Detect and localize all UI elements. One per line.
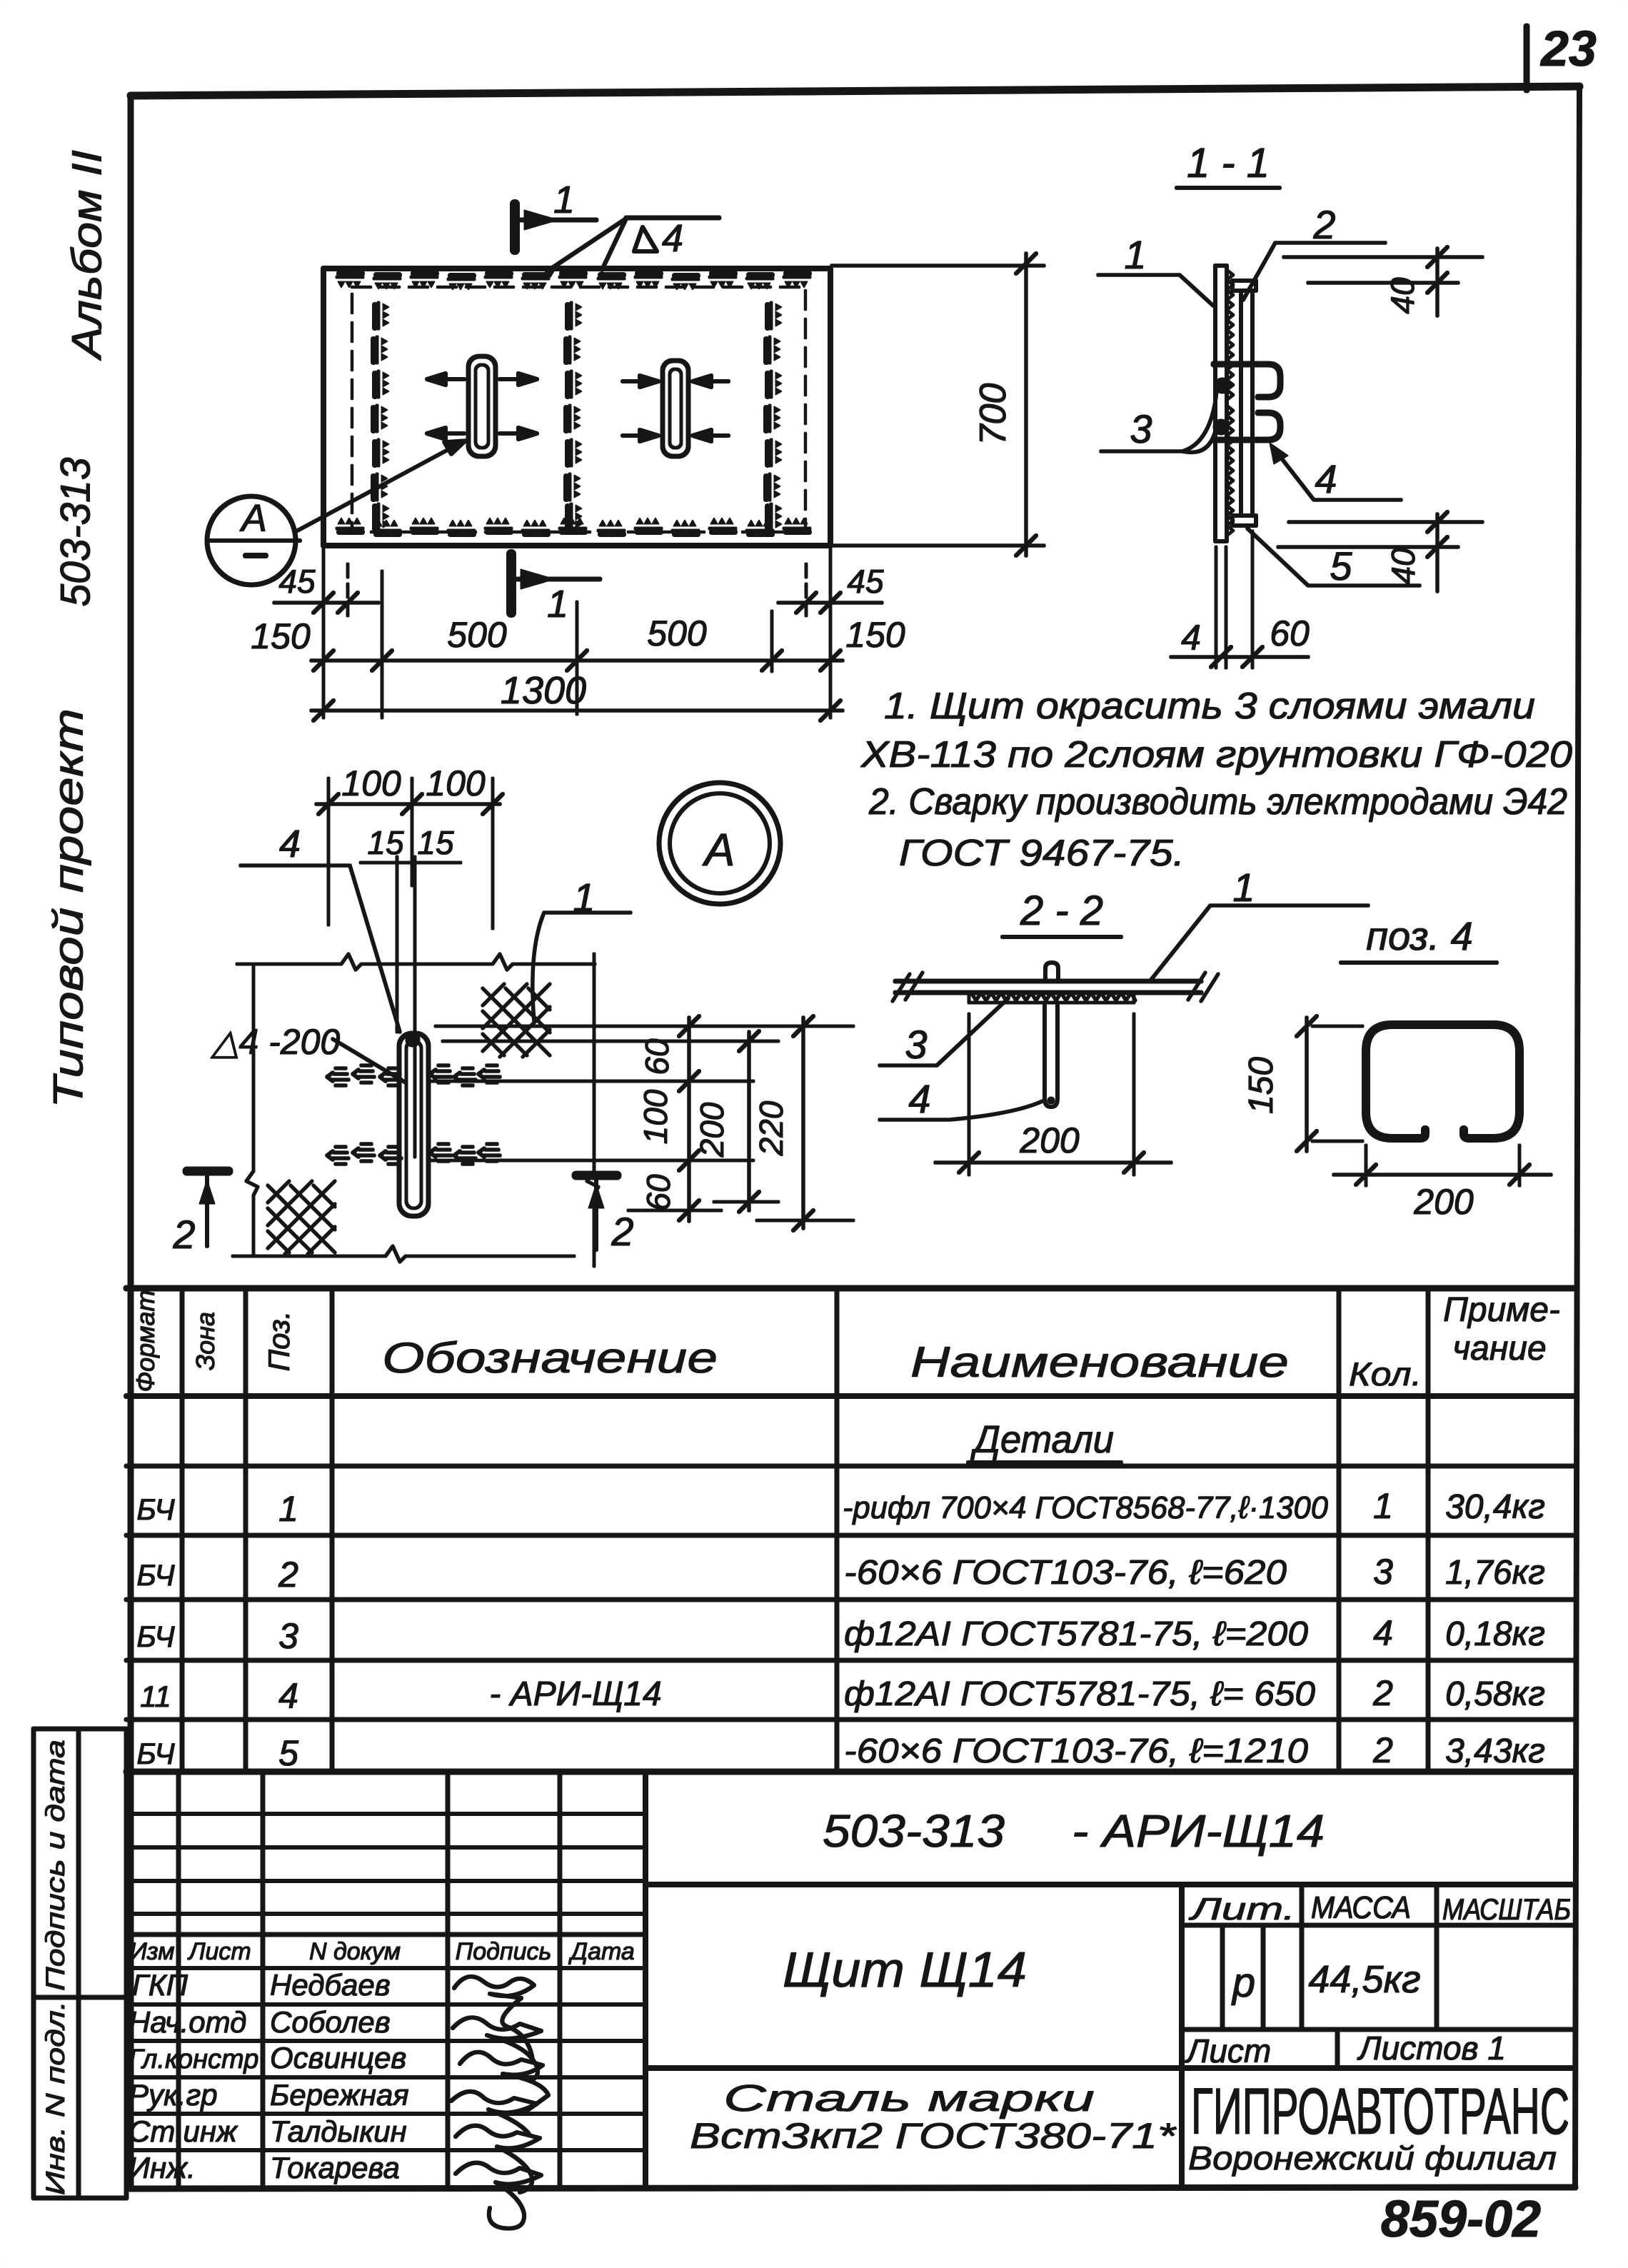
svg-text:-рифл 700×4 ГОСТ8568-77,ℓ·1300: -рифл 700×4 ГОСТ8568-77,ℓ·1300 xyxy=(843,1490,1329,1525)
svg-text:Ст.инж: Ст.инж xyxy=(129,2114,238,2148)
svg-text:Освинцев: Освинцев xyxy=(270,2041,406,2074)
svg-text:2: 2 xyxy=(278,1555,298,1595)
strip pos2 with end caps xyxy=(1232,281,1256,526)
svg-text:Приме-: Приме- xyxy=(1443,1291,1560,1329)
svg-text:Листов 1: Листов 1 xyxy=(1357,2029,1506,2067)
riffle strip below plate xyxy=(969,993,1135,1003)
slot 2 xyxy=(663,361,688,456)
label 2 leader xyxy=(1243,243,1385,300)
section 1-1 title xyxy=(1177,140,1280,188)
riffle marks bottom row xyxy=(337,518,810,534)
bolts pos3 xyxy=(1213,378,1230,435)
svg-text:Подпись и дата: Подпись и дата xyxy=(41,1740,70,1991)
dim 220 vertical xyxy=(793,1016,813,1230)
label 1 leader xyxy=(1098,275,1213,306)
svg-text:МАССА: МАССА xyxy=(1311,1890,1411,1925)
dim 200 vertical xyxy=(739,1031,759,1212)
slot 1 arrows outward xyxy=(427,373,537,439)
svg-text:Бережная: Бережная xyxy=(270,2078,409,2112)
svg-text:150: 150 xyxy=(251,616,311,656)
detail circle A xyxy=(659,783,780,904)
svg-text:Дата: Дата xyxy=(568,1938,635,1965)
svg-text:3: 3 xyxy=(905,1022,927,1067)
svg-text:200: 200 xyxy=(1019,1120,1080,1160)
slot (vertical) xyxy=(399,1033,428,1216)
svg-text:Зона: Зона xyxy=(191,1312,220,1370)
plate horizontal xyxy=(893,973,1218,1001)
svg-text:Недбаев: Недбаев xyxy=(270,1968,391,2002)
svg-text:Альбом II: Альбом II xyxy=(64,150,110,361)
slot 1 xyxy=(468,356,496,456)
svg-text:45: 45 xyxy=(847,563,884,600)
section cut mark 1 (bottom) xyxy=(511,554,600,613)
svg-text:- АРИ-Щ14: - АРИ-Щ14 xyxy=(1072,1805,1325,1857)
svg-text:200: 200 xyxy=(693,1102,730,1158)
svg-text:150: 150 xyxy=(845,615,905,655)
label 5 leader xyxy=(1247,528,1420,586)
weld row 2 xyxy=(327,1144,500,1164)
svg-text:ГКП: ГКП xyxy=(132,1968,189,2002)
svg-text:А: А xyxy=(702,824,735,875)
svg-text:15: 15 xyxy=(417,824,454,861)
riffle marks top row xyxy=(337,274,810,290)
right vertical line with break xyxy=(587,954,598,1266)
svg-text:Лит.: Лит. xyxy=(1188,1892,1295,1927)
label 3 leader xyxy=(1101,391,1217,452)
svg-text:Сталь марки: Сталь марки xyxy=(723,2078,1095,2119)
section mark 2 (left) xyxy=(187,1171,228,1246)
dim 60/100/60 vertical xyxy=(679,1016,699,1221)
svg-text:4: 4 xyxy=(1373,1613,1393,1653)
right dimension extension lines xyxy=(436,1026,853,1220)
section cut mark 1 (top) xyxy=(515,204,719,250)
dim 45 right xyxy=(778,593,882,613)
svg-text:ф12АI ГОСТ5781-75, ℓ=200: ф12АI ГОСТ5781-75, ℓ=200 xyxy=(844,1615,1308,1653)
svg-text:ВстЗкп2 ГОСТ380-71*: ВстЗкп2 ГОСТ380-71* xyxy=(690,2116,1177,2156)
svg-text:2: 2 xyxy=(610,1209,633,1254)
svg-text:- АРИ-Щ14: - АРИ-Щ14 xyxy=(489,1675,661,1713)
svg-text:1: 1 xyxy=(547,583,568,626)
svg-text:4: 4 xyxy=(278,1676,298,1716)
svg-text:3,43кг: 3,43кг xyxy=(1445,1732,1545,1770)
svg-text:100: 100 xyxy=(341,763,401,803)
svg-text:4: 4 xyxy=(908,1076,930,1121)
svg-text:4: 4 xyxy=(662,217,683,260)
svg-text:чание: чание xyxy=(1452,1330,1546,1368)
section 2-2 title xyxy=(1003,888,1121,937)
svg-text:3: 3 xyxy=(1373,1552,1393,1592)
table grid xyxy=(126,1288,1575,1772)
svg-text:Инв. N подл.: Инв. N подл. xyxy=(41,2001,70,2195)
svg-text:5: 5 xyxy=(1330,543,1352,588)
svg-text:ГОСТ 9467-75.: ГОСТ 9467-75. xyxy=(899,833,1185,874)
svg-text:100: 100 xyxy=(637,1089,674,1144)
svg-text:1: 1 xyxy=(278,1489,298,1529)
svg-text:Наименование: Наименование xyxy=(910,1338,1289,1386)
svg-text:БЧ: БЧ xyxy=(136,1620,175,1653)
svg-text:-60×6 ГОСТ103-76, ℓ=1210: -60×6 ГОСТ103-76, ℓ=1210 xyxy=(844,1732,1308,1770)
svg-text:Кол.: Кол. xyxy=(1349,1355,1422,1393)
weld row center lines xyxy=(431,1081,753,1160)
svg-text:Рук.гр: Рук.гр xyxy=(129,2078,218,2112)
dim 150 (pos4) xyxy=(1297,1016,1362,1151)
svg-text:БЧ: БЧ xyxy=(136,1492,175,1526)
dim 700 xyxy=(832,254,1044,556)
left vertical edge line xyxy=(246,964,258,1256)
dim 45 left xyxy=(274,593,378,613)
svg-text:Инж.: Инж. xyxy=(129,2151,196,2184)
weld flag triangle 4 xyxy=(543,219,657,277)
svg-text:БЧ: БЧ xyxy=(136,1737,175,1770)
svg-text:поз. 4: поз. 4 xyxy=(1366,913,1473,958)
svg-text:△4 -200: △4 -200 xyxy=(210,1022,340,1062)
svg-text:40: 40 xyxy=(1384,277,1421,314)
svg-text:Токарева: Токарева xyxy=(270,2151,400,2184)
svg-text:700: 700 xyxy=(973,383,1014,446)
svg-text:Изм: Изм xyxy=(129,1938,174,1965)
left margin stamp texts xyxy=(45,150,110,1108)
svg-text:Подпись: Подпись xyxy=(456,1938,552,1965)
svg-text:0,58кг: 0,58кг xyxy=(1445,1675,1545,1713)
svg-text:1,76кг: 1,76кг xyxy=(1445,1554,1545,1592)
svg-text:859-02: 859-02 xyxy=(1381,2191,1541,2248)
svg-text:23: 23 xyxy=(1539,21,1597,76)
svg-text:N докум: N докум xyxy=(309,1938,401,1965)
dims 4 and 60 below plate xyxy=(1171,531,1308,668)
svg-text:1: 1 xyxy=(1373,1486,1393,1526)
dim 200 (2-2) xyxy=(935,1014,1171,1175)
svg-text:4: 4 xyxy=(279,823,301,865)
dimension line 1300 xyxy=(311,701,843,721)
svg-text:200: 200 xyxy=(1413,1182,1474,1222)
svg-text:5: 5 xyxy=(278,1733,298,1773)
svg-text:100: 100 xyxy=(426,763,486,803)
signatures squiggles xyxy=(451,1977,548,2229)
svg-text:2 - 2: 2 - 2 xyxy=(1020,888,1103,934)
crosshatch patch upper xyxy=(483,984,550,1057)
svg-text:150: 150 xyxy=(1242,1057,1280,1114)
pos 4 title xyxy=(1341,913,1497,963)
title block grid xyxy=(645,1772,1575,2187)
svg-text:40: 40 xyxy=(1385,548,1422,585)
svg-text:220: 220 xyxy=(753,1100,790,1156)
svg-text:1: 1 xyxy=(1124,232,1146,277)
extension lines below panel xyxy=(323,547,830,718)
svg-text:р: р xyxy=(1231,1960,1255,2006)
svg-text:Лист: Лист xyxy=(1185,2032,1271,2069)
riffle marks left column xyxy=(373,303,389,530)
svg-text:1: 1 xyxy=(553,179,575,221)
bolt head center xyxy=(1045,963,1058,981)
svg-text:Гл.констр: Гл.констр xyxy=(129,2044,258,2074)
left signature grid xyxy=(126,1772,645,2187)
riffle marks center column xyxy=(566,303,582,530)
svg-text:МАСШТАБ: МАСШТАБ xyxy=(1442,1892,1571,1926)
svg-text:1 - 1: 1 - 1 xyxy=(1187,140,1270,186)
svg-text:4: 4 xyxy=(1315,456,1337,501)
svg-text:503-313: 503-313 xyxy=(52,458,99,607)
svg-text:Лист: Лист xyxy=(187,1938,251,1965)
svg-text:2: 2 xyxy=(1312,202,1335,247)
svg-text:500: 500 xyxy=(647,613,707,653)
svg-text:60: 60 xyxy=(1270,613,1310,653)
svg-text:А: А xyxy=(239,497,267,540)
svg-text:2: 2 xyxy=(1372,1673,1393,1713)
svg-text:ф12АI ГОСТ5781-75, ℓ= 650: ф12АI ГОСТ5781-75, ℓ= 650 xyxy=(844,1675,1315,1713)
section mark 2 (right) xyxy=(576,1175,617,1250)
svg-text:60: 60 xyxy=(640,1174,677,1211)
svg-text:ГИПРОАВТОТРАНС: ГИПРОАВТОТРАНС xyxy=(1191,2075,1569,2148)
plate pos1 (riffled 700x4) xyxy=(1215,266,1233,541)
view callout circle A xyxy=(207,496,300,585)
panel outline xyxy=(323,269,830,546)
svg-text:60: 60 xyxy=(638,1038,675,1075)
left margin bottom box xyxy=(34,1729,126,2198)
svg-text:503-313: 503-313 xyxy=(823,1805,1005,1857)
rod pos3 vertical xyxy=(1045,1003,1057,1107)
svg-text:4: 4 xyxy=(1181,618,1201,658)
svg-text:БЧ: БЧ xyxy=(136,1558,175,1592)
svg-text:Поз.: Поз. xyxy=(262,1311,296,1372)
svg-text:15: 15 xyxy=(367,824,404,861)
svg-text:Нач.отд: Нач.отд xyxy=(129,2005,246,2039)
svg-text:2: 2 xyxy=(1372,1730,1393,1770)
slot 2 arrows inward xyxy=(623,376,728,441)
svg-text:1: 1 xyxy=(1232,865,1255,910)
svg-text:-60×6 ГОСТ103-76, ℓ=620: -60×6 ГОСТ103-76, ℓ=620 xyxy=(844,1554,1287,1592)
dim 40 bottom right xyxy=(1278,512,1482,591)
svg-text:500: 500 xyxy=(447,615,507,655)
svg-text:0,18кг: 0,18кг xyxy=(1445,1615,1545,1653)
riffle marks right column xyxy=(766,303,782,530)
svg-text:30,4кг: 30,4кг xyxy=(1445,1488,1545,1526)
dimension line 150/500/500/150 xyxy=(311,651,843,671)
leader from callout A to slot 1 xyxy=(295,441,466,532)
dim 100 100 xyxy=(316,778,503,928)
dim 200 (pos4) xyxy=(1334,1145,1551,1185)
panel inner dashed border xyxy=(352,287,805,532)
svg-text:Формат: Формат xyxy=(131,1290,160,1393)
svg-text:3: 3 xyxy=(1130,406,1152,451)
svg-text:Обозначение: Обозначение xyxy=(382,1334,718,1382)
svg-text:2: 2 xyxy=(172,1212,195,1257)
svg-text:3: 3 xyxy=(278,1616,298,1656)
svg-text:1300: 1300 xyxy=(501,669,586,712)
svg-text:Талдыкин: Талдыкин xyxy=(270,2114,407,2148)
bracket pos4 (C-channel section) xyxy=(1214,364,1280,440)
svg-text:Типовой проект: Типовой проект xyxy=(45,708,91,1108)
svg-text:ХВ-113 по 2слоям грунтовки ГФ-: ХВ-113 по 2слоям грунтовки ГФ-020 xyxy=(860,734,1572,776)
svg-text:Соболев: Соболев xyxy=(270,2005,391,2039)
label 4 leader xyxy=(1270,443,1401,500)
C hook shape xyxy=(1366,1025,1519,1138)
svg-text:2. Сварку производить электрод: 2. Сварку производить электродами Э42 xyxy=(868,781,1567,823)
svg-text:Детали: Детали xyxy=(970,1418,1114,1461)
svg-text:1. Щит окрасить 3 слоями эмали: 1. Щит окрасить 3 слоями эмали xyxy=(884,686,1535,727)
page number 23 xyxy=(1527,21,1597,90)
weld row 1 xyxy=(327,1065,500,1085)
crosshatch patch lower xyxy=(268,1181,335,1254)
bottom break line xyxy=(233,1246,574,1262)
svg-text:Воронежский филиал: Воронежский филиал xyxy=(1188,2139,1557,2177)
svg-text:Щит Щ14: Щит Щ14 xyxy=(783,1942,1027,1997)
svg-text:11: 11 xyxy=(140,1680,171,1713)
svg-text:45: 45 xyxy=(278,563,316,600)
dim 40 top right xyxy=(1284,247,1482,316)
dim 15 15 xyxy=(361,857,461,1157)
top break line xyxy=(237,954,595,970)
svg-text:44,5кг: 44,5кг xyxy=(1308,1958,1420,2001)
